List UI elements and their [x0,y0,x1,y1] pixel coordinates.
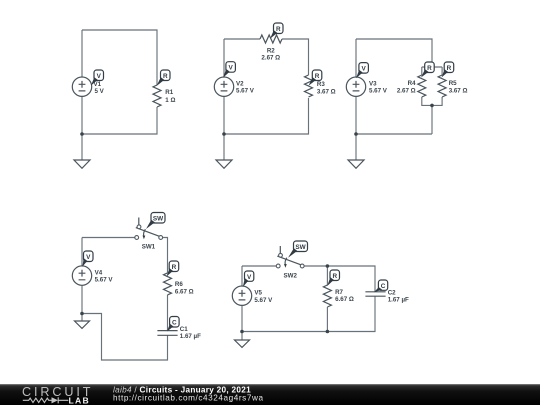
svg-text:C: C [381,283,386,290]
svg-text:R: R [447,65,452,72]
svg-text:2.67 Ω: 2.67 Ω [261,55,280,62]
svg-text:R: R [163,73,168,80]
svg-text:2.67 Ω: 2.67 Ω [397,87,416,94]
svg-text:R1: R1 [165,89,173,96]
svg-text:C: C [172,319,177,326]
svg-text:R6: R6 [175,281,183,288]
svg-text:LAB: LAB [69,395,91,405]
svg-text:SW2: SW2 [284,273,298,280]
svg-text:3.67 Ω: 3.67 Ω [449,87,468,94]
svg-text:C2: C2 [388,290,396,297]
svg-text:R2: R2 [267,47,275,54]
svg-text:R: R [172,264,177,271]
svg-text:R3: R3 [317,81,325,88]
svg-text:C1: C1 [180,326,188,333]
svg-text:V5: V5 [254,290,262,297]
svg-text:V3: V3 [369,81,377,88]
svg-text:V: V [247,274,252,281]
svg-text:R4: R4 [408,80,416,87]
svg-text:5.67 V: 5.67 V [236,88,255,95]
svg-text:1.67 µF: 1.67 µF [180,333,201,340]
svg-text:3.67 Ω: 3.67 Ω [317,88,336,95]
svg-text:SW: SW [295,244,306,251]
svg-text:1.67 µF: 1.67 µF [388,297,409,304]
svg-text:V: V [86,254,91,261]
svg-text:5.67 V: 5.67 V [369,88,388,95]
svg-text:http://circuitlab.com/c4324ag4: http://circuitlab.com/c4324ag4rs7wa [113,393,264,402]
svg-text:V4: V4 [95,270,103,277]
svg-text:V2: V2 [236,81,244,88]
svg-text:V: V [362,66,367,73]
svg-text:R: R [427,65,432,72]
svg-text:R: R [332,273,337,280]
svg-text:6.67 Ω: 6.67 Ω [335,296,354,303]
svg-text:5.67 V: 5.67 V [95,277,114,284]
svg-text:6.67 Ω: 6.67 Ω [175,288,194,295]
svg-text:SW1: SW1 [142,243,156,250]
svg-text:R5: R5 [449,80,457,87]
svg-text:SW: SW [153,215,164,222]
svg-text:5.67 V: 5.67 V [254,297,273,304]
svg-text:R: R [315,73,320,80]
svg-text:V: V [229,65,234,72]
svg-text:1 Ω: 1 Ω [165,97,175,104]
svg-text:R7: R7 [335,289,343,296]
svg-text:V: V [97,73,102,80]
svg-text:5 V: 5 V [95,88,105,95]
svg-text:R: R [276,26,281,33]
